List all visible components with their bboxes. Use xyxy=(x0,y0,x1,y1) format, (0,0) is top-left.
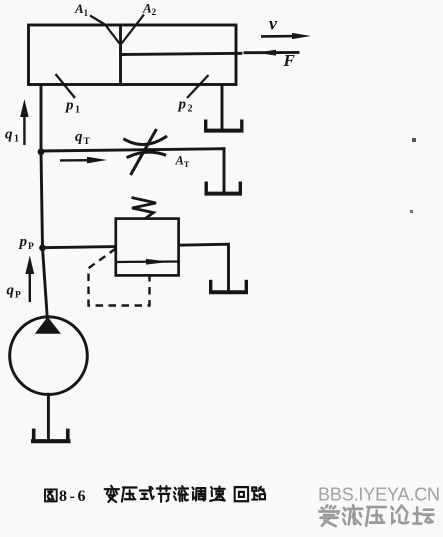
arrow qP (up) xyxy=(25,256,34,303)
wire cylinder left port down xyxy=(40,86,43,152)
svg-text:BBS.IYEYA.CN: BBS.IYEYA.CN xyxy=(318,485,440,505)
piston rod xyxy=(121,53,242,54)
svg-text:F: F xyxy=(283,51,296,70)
piston xyxy=(119,25,122,85)
caption char 压 xyxy=(122,487,137,501)
node junction 2 (pP, relief branch) xyxy=(39,245,46,252)
relief valve body xyxy=(116,219,179,276)
watermark char 液 xyxy=(343,505,362,524)
arrow F (force, leftward) xyxy=(256,50,276,56)
wire throttle branch horizontal xyxy=(41,149,224,151)
leader A1 xyxy=(90,16,120,44)
arrow qT flow (right) xyxy=(60,157,107,164)
watermark char 论 xyxy=(391,506,408,524)
relief valve internal arrow xyxy=(146,259,170,265)
rod force line xyxy=(245,51,298,54)
wire cylinder right port down xyxy=(221,86,224,130)
leader p2 xyxy=(187,75,209,98)
caption char 变 xyxy=(105,486,119,502)
caption char 图 xyxy=(45,489,57,501)
pump triangle xyxy=(35,317,61,334)
svg-text:8-6: 8-6 xyxy=(59,488,88,505)
svg-text:v: v xyxy=(269,14,278,34)
caption char 速 xyxy=(210,486,225,500)
wire relief valve inlet xyxy=(43,247,116,248)
caption char 回 xyxy=(235,487,248,501)
node junction 1 (q1/qT split) xyxy=(38,148,45,155)
wire throttle outlet down xyxy=(223,149,226,193)
watermark char 坛 xyxy=(413,507,433,523)
relief valve pilot dashed line xyxy=(89,249,150,306)
arrow v (velocity) xyxy=(261,33,311,39)
wire relief valve outlet xyxy=(179,244,229,291)
watermark char 压 xyxy=(366,507,386,526)
caption char 路 xyxy=(252,487,265,500)
wire pump supply main line xyxy=(41,152,47,319)
caption char 节 xyxy=(157,486,171,502)
tank 2 (throttle drain) xyxy=(205,182,243,194)
throttle valve AT xyxy=(123,129,167,175)
caption char 调 xyxy=(192,487,205,500)
tank 4 (pump suction) xyxy=(31,429,71,442)
relief valve spring xyxy=(132,198,157,219)
caption char 式 xyxy=(140,487,154,499)
caption char 流 xyxy=(174,486,188,501)
leader p1 xyxy=(56,74,76,98)
arrow q1 (up) xyxy=(20,99,28,145)
tank 1 (cylinder drain) xyxy=(204,120,244,131)
speck artifact 1 xyxy=(412,138,416,142)
watermark char 爱 xyxy=(319,505,338,526)
pump P xyxy=(10,317,88,395)
speck artifact 2 xyxy=(410,210,413,213)
tank 3 (relief drain) xyxy=(209,280,248,292)
leader A2 xyxy=(122,15,145,44)
wire pump suction down xyxy=(47,394,50,440)
cylinder body xyxy=(29,25,237,85)
relief valve internal flow line xyxy=(116,260,178,263)
